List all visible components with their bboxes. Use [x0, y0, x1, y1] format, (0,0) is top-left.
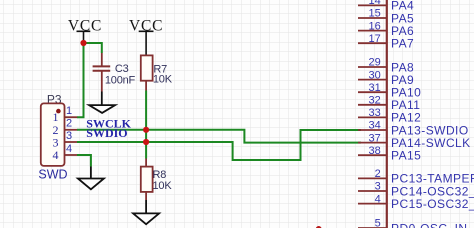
pin 17 PA7 [358, 33, 414, 51]
svg-text:5: 5 [375, 218, 381, 228]
svg-text:29: 29 [369, 57, 381, 69]
pin 15 PA5 [358, 8, 414, 26]
svg-text:3: 3 [66, 130, 72, 142]
svg-text:2: 2 [66, 118, 72, 130]
svg-text:17: 17 [369, 33, 381, 45]
svg-text:PA15: PA15 [391, 149, 421, 163]
svg-text:14: 14 [369, 0, 381, 7]
svg-text:3: 3 [375, 181, 381, 193]
wire VCC to P3 pin1 [77, 43, 84, 117]
pin 38 PA15 [358, 145, 421, 163]
IC U1 body edge [386, 0, 388, 228]
svg-text:38: 38 [369, 145, 381, 157]
svg-text:30: 30 [369, 69, 381, 81]
pin 4 PC15 [358, 193, 474, 211]
svg-text:16: 16 [369, 20, 381, 32]
wire VCC to C3 [84, 43, 102, 53]
ground below R8 [133, 200, 159, 224]
svg-text:SWDIO: SWDIO [86, 126, 127, 140]
svg-text:SWD: SWD [38, 167, 67, 181]
wire R7 to R8 [145, 91, 147, 159]
svg-text:4: 4 [53, 148, 59, 162]
svg-text:PD0-OSC_IN: PD0-OSC_IN [391, 221, 468, 228]
svg-text:10K: 10K [153, 180, 173, 192]
svg-text:4: 4 [375, 193, 381, 205]
pin 5 PD0-OSC_IN [358, 218, 468, 236]
svg-text:37: 37 [369, 132, 381, 144]
wire SWDIO [77, 130, 361, 160]
junction dot (cut at bottom edge) [316, 226, 322, 232]
P3 pin 3 [65, 130, 78, 142]
svg-text:15: 15 [369, 8, 381, 20]
pin 30 PA9 [358, 69, 414, 87]
pin 37 PA14-SWCLK [358, 132, 471, 150]
junction dot SWDIO [143, 139, 149, 145]
pin 29 PA8 [358, 57, 414, 75]
svg-text:100nF: 100nF [105, 74, 136, 86]
ground below C3 [89, 92, 115, 113]
svg-text:PC15-OSC32_OUT: PC15-OSC32_OUT [391, 197, 474, 211]
svg-text:33: 33 [369, 107, 381, 119]
svg-text:PA7: PA7 [391, 37, 414, 51]
pin 32 PA11 [358, 95, 420, 113]
wire SWCLK [77, 130, 361, 143]
svg-text:C3: C3 [115, 63, 129, 75]
pin 34 PA13-SWDIO [358, 120, 469, 138]
pin 2 PC13 [358, 168, 474, 186]
svg-text:4: 4 [66, 143, 72, 155]
resistor R7 [141, 55, 173, 90]
pin 3 PC14 [358, 181, 474, 199]
pin 14 PA4 [358, 0, 414, 13]
P3 pin 1 [65, 105, 78, 117]
svg-text:1: 1 [66, 105, 72, 117]
svg-text:34: 34 [369, 120, 381, 132]
pin 31 PA10 [358, 82, 421, 100]
svg-text:10K: 10K [153, 73, 173, 85]
resistor R8 [141, 159, 173, 201]
power port VCC right [129, 17, 163, 55]
capacitor C3 [93, 53, 136, 92]
pin 16 PA6 [358, 20, 414, 38]
junction dot SWCLK [143, 127, 149, 133]
pin 33 PA12 [358, 107, 421, 125]
P3 pin 4 [65, 143, 78, 155]
svg-text:31: 31 [369, 82, 381, 94]
svg-text:2: 2 [375, 168, 381, 180]
connector P3 [38, 93, 67, 182]
junction dot VCC left [80, 40, 86, 46]
ground below P3 [78, 167, 104, 190]
power port VCC left [68, 17, 102, 43]
svg-text:32: 32 [369, 95, 381, 107]
P3 pin 2 [65, 118, 78, 130]
wire P3 pin4 to ground [77, 155, 91, 167]
